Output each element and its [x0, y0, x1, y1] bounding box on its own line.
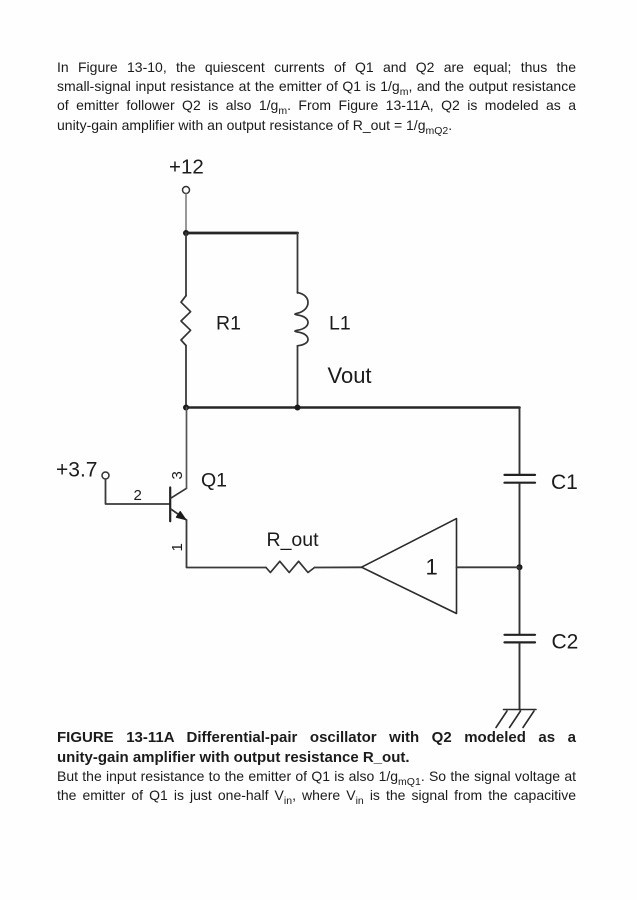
wire L1 bottom: [297, 346, 299, 408]
label pin 1: [169, 543, 186, 551]
svg-text:+12: +12: [169, 156, 204, 179]
wire C2 to ground: [519, 644, 521, 710]
node mid rail L1: [295, 405, 301, 411]
inductor L1: [295, 293, 308, 346]
svg-text:2: 2: [134, 487, 142, 504]
label Vout: [328, 363, 372, 388]
resistor R_out: [266, 561, 315, 572]
top paragraph: [57, 58, 576, 135]
terminal +12: [183, 187, 190, 194]
label pin 2: [134, 487, 142, 504]
net +12 label: [169, 156, 204, 179]
wire R1 bottom: [185, 346, 187, 408]
wire amplifier output: [457, 566, 520, 568]
wire mid rail: [186, 406, 520, 409]
svg-text:Q1: Q1: [201, 470, 227, 492]
transistor Q1: [170, 488, 186, 522]
svg-text:Vout: Vout: [328, 363, 372, 388]
svg-text:R_out: R_out: [267, 529, 320, 551]
label gain 1: [426, 555, 438, 580]
wire right vertical to C1: [519, 408, 521, 474]
wire emitter to R_out: [187, 520, 267, 568]
node mid rail R1: [183, 405, 189, 411]
wire R_out to amplifier: [315, 566, 362, 568]
wire output node to C2: [519, 567, 521, 633]
svg-text:1: 1: [426, 555, 438, 580]
label R_out: [267, 529, 320, 551]
node top rail left: [183, 230, 189, 236]
label pin 3: [169, 471, 186, 479]
wire +12 stub: [185, 194, 187, 232]
svg-text:C1: C1: [551, 471, 578, 494]
figure caption and following paragraph: [57, 728, 576, 805]
label R1: [216, 313, 241, 335]
capacitor C1: [505, 475, 536, 483]
label C2: [552, 631, 579, 654]
wire R1 top: [185, 233, 187, 296]
wire collector: [186, 408, 188, 489]
net +3.7 label: [56, 459, 97, 482]
wire C1 to output node: [519, 484, 521, 568]
svg-text:C2: C2: [552, 631, 579, 654]
label Q1: [201, 470, 227, 492]
wire top rail: [186, 232, 298, 235]
svg-text:+3.7: +3.7: [56, 459, 97, 482]
terminal +3.7: [102, 472, 109, 479]
wire L1 top: [297, 233, 299, 293]
svg-text:R1: R1: [216, 313, 241, 335]
op-amp U1 unity gain buffer: [362, 519, 457, 614]
svg-text:1: 1: [169, 543, 186, 551]
capacitor C2: [505, 635, 536, 643]
ground: [496, 710, 536, 728]
label C1: [551, 471, 578, 494]
wire +3.7 to base: [106, 479, 170, 504]
node output: [517, 564, 523, 570]
label L1: [329, 313, 351, 335]
resistor R1: [181, 296, 191, 346]
svg-text:3: 3: [169, 471, 186, 479]
svg-text:L1: L1: [329, 313, 351, 335]
